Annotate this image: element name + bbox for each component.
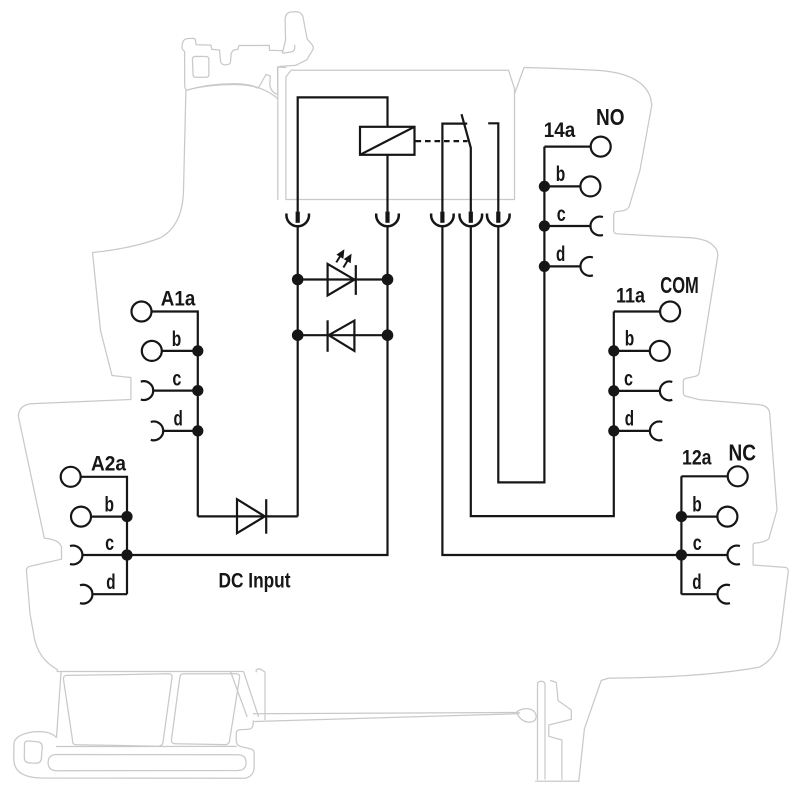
svg-text:A1a: A1a xyxy=(161,288,196,311)
12a row b wire xyxy=(681,515,717,517)
terminal group A1a bus xyxy=(152,312,198,517)
terminal group 11a bus xyxy=(614,310,660,312)
14a row c node xyxy=(539,220,550,231)
A2a row d wire xyxy=(92,593,127,595)
freewheel diode D2 node left xyxy=(292,329,304,341)
LED D1 row wire xyxy=(298,278,388,280)
svg-text:NO: NO xyxy=(596,104,625,130)
A2a row b node xyxy=(121,511,132,522)
14a row b wire xyxy=(544,185,580,187)
housing DIN rail left foot window 2 xyxy=(171,674,239,745)
14a row d socket arc xyxy=(580,257,592,276)
housing DIN rail right foot xyxy=(536,681,579,782)
11a row b wire xyxy=(614,350,650,352)
A2a row d socket arc xyxy=(80,585,92,604)
11a row d wire xyxy=(614,430,650,432)
housing left foot legs xyxy=(231,669,266,720)
svg-text:d: d xyxy=(106,571,115,594)
housing latch inner hole xyxy=(192,56,209,77)
A2a row a socket circle xyxy=(61,467,81,487)
housing latch finger curl detail xyxy=(283,45,295,53)
freewheel diode D2 triangle xyxy=(329,321,355,351)
11a row a socket circle xyxy=(660,302,680,322)
12a row a socket circle xyxy=(728,466,748,486)
A1a row b socket circle xyxy=(142,341,162,361)
svg-text:c: c xyxy=(557,203,566,226)
12a row b socket circle xyxy=(717,507,737,527)
A1a row c socket arc xyxy=(141,381,153,400)
housing relay module frame xyxy=(286,70,515,199)
12a row d socket arc xyxy=(717,585,729,604)
housing DIN rail left foot window 1 xyxy=(63,674,172,746)
wire coil plus down xyxy=(297,226,299,516)
switch NC pole with fixed contact bar xyxy=(442,124,467,212)
freewheel diode D2 row wire xyxy=(298,334,388,336)
svg-text:NC: NC xyxy=(729,440,757,466)
12a row c wire xyxy=(681,554,727,556)
svg-text:c: c xyxy=(172,367,181,390)
14a row c socket arc xyxy=(590,217,602,236)
svg-text:b: b xyxy=(105,493,115,516)
plug P2 arc xyxy=(376,214,399,227)
wire COM down U to 11a xyxy=(471,226,614,516)
14a row b node xyxy=(539,181,550,192)
terminal group 12a bus xyxy=(681,476,727,594)
housing module-socket interface xyxy=(278,67,286,199)
switch COM blade xyxy=(462,114,471,212)
LED D1 cathode bar xyxy=(355,265,357,295)
housing rail wedge right hook xyxy=(516,709,536,723)
LED D1 node left xyxy=(292,274,304,286)
svg-text:b: b xyxy=(172,328,182,351)
svg-text:d: d xyxy=(174,408,183,431)
terminal group 14a bus xyxy=(544,146,590,148)
plug P1 pin xyxy=(296,212,300,223)
11a row d node xyxy=(608,425,619,436)
11a row b socket circle xyxy=(650,341,670,361)
plug P5 arc xyxy=(487,214,510,227)
LED D1 arrow 1 xyxy=(336,256,340,262)
A2a row b socket circle xyxy=(71,507,91,527)
A1a row c node xyxy=(192,385,203,396)
LED D1 node right xyxy=(382,274,394,286)
series diode D3 wire xyxy=(198,515,298,517)
A1a row b wire xyxy=(162,350,198,352)
A1a row d node xyxy=(192,425,203,436)
A2a row c socket arc xyxy=(70,546,82,565)
svg-text:DC Input: DC Input xyxy=(219,570,291,593)
relay coil diagonal xyxy=(360,127,415,155)
11a row c node xyxy=(608,385,619,396)
11a row d socket arc xyxy=(650,422,662,441)
12a row c socket arc xyxy=(727,546,739,565)
12a row c node xyxy=(676,549,687,560)
A1a row c wire xyxy=(153,390,198,392)
svg-text:11a: 11a xyxy=(616,285,645,308)
svg-text:12a: 12a xyxy=(682,447,712,470)
A1a row d socket arc xyxy=(151,421,163,440)
freewheel diode D2 cathode bar xyxy=(327,320,329,352)
plug P5 pin xyxy=(496,212,500,223)
A2a row c node xyxy=(121,549,132,560)
housing socket right outline xyxy=(515,68,789,782)
housing DIN rail left foot outline xyxy=(14,673,254,779)
14a row b socket circle xyxy=(580,176,600,196)
svg-text:b: b xyxy=(625,328,635,351)
14a row d node xyxy=(539,261,550,272)
wire coil minus down and left to A2a xyxy=(127,226,388,555)
12a row d wire xyxy=(681,593,717,595)
svg-text:b: b xyxy=(692,493,702,516)
A2a row c wire xyxy=(82,554,127,556)
wire coil top loop xyxy=(298,97,388,211)
wire coil bottom to plug xyxy=(386,155,388,212)
housing release latch outer contour xyxy=(182,12,313,95)
svg-text:d: d xyxy=(692,571,701,594)
svg-text:COM: COM xyxy=(660,272,699,298)
series diode D3 cathode bar xyxy=(265,499,267,534)
series diode D3 triangle xyxy=(237,499,265,533)
plug P4 arc xyxy=(460,214,483,227)
11a row b node xyxy=(608,345,619,356)
housing rail wedge xyxy=(253,713,519,722)
11a row c socket arc xyxy=(660,381,672,400)
svg-text:c: c xyxy=(105,532,114,555)
housing latch spring arc xyxy=(186,84,278,99)
switch NO fixed contact bar xyxy=(488,123,498,212)
12a row b node xyxy=(676,511,687,522)
plug P3 pin xyxy=(440,212,444,223)
LED D1 arrow 2 xyxy=(343,261,347,268)
terminal group A2a bus xyxy=(81,477,127,594)
A1a row d wire xyxy=(163,430,198,432)
plug P1 arc xyxy=(286,214,309,227)
14a row a socket circle xyxy=(591,137,611,157)
A1a row b node xyxy=(192,345,203,356)
freewheel diode D2 node right xyxy=(382,329,394,341)
housing DIN rail left foot slot xyxy=(48,755,246,771)
14a row d wire xyxy=(544,265,580,267)
plug P2 pin xyxy=(385,212,389,223)
housing upper socket left edge xyxy=(18,91,258,717)
relay coil K1 xyxy=(360,127,415,155)
svg-text:c: c xyxy=(624,368,633,391)
svg-text:b: b xyxy=(556,163,566,186)
11a row c wire xyxy=(614,390,660,392)
wire NC down and right to 12a xyxy=(442,226,681,555)
housing left foot pocket inner hole xyxy=(24,741,42,763)
svg-text:d: d xyxy=(625,408,634,431)
LED D1 triangle xyxy=(328,264,355,296)
A2a row b wire xyxy=(91,515,127,517)
dashed actuator link xyxy=(416,140,468,142)
svg-text:A2a: A2a xyxy=(91,453,126,476)
plug P4 pin xyxy=(469,212,473,223)
A1a row a socket circle xyxy=(132,302,152,322)
wire NO down U to 14a xyxy=(498,147,544,483)
svg-text:c: c xyxy=(693,532,702,555)
plug P3 arc xyxy=(431,214,454,227)
14a row c wire xyxy=(544,225,590,227)
svg-text:d: d xyxy=(556,243,565,266)
svg-text:14a: 14a xyxy=(544,119,576,142)
